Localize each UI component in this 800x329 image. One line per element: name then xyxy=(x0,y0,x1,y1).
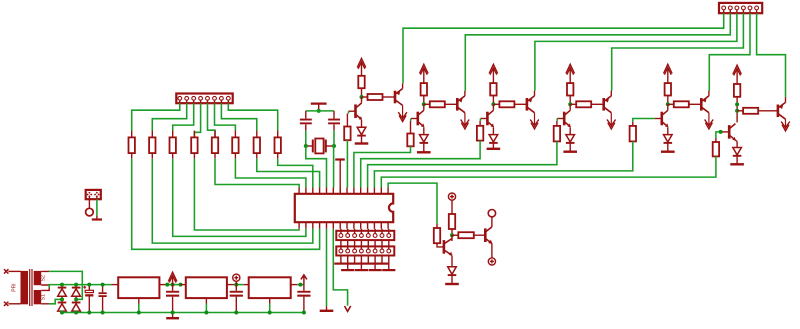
supply VCC arrow stage 3 xyxy=(489,64,498,74)
IC U1 bottom pins xyxy=(299,222,388,229)
node crystal right xyxy=(332,144,336,148)
resistor R3c base series vertical xyxy=(477,126,483,141)
supply arrow down stage 3 xyxy=(530,120,539,129)
capacitor C11 electrolytic xyxy=(88,285,90,291)
transistor Q3b NPN xyxy=(487,110,493,127)
node stage 5 junction xyxy=(666,102,670,106)
wire SV2 pin1 to T1 emitter xyxy=(403,13,724,83)
wire S2 top to bridge xyxy=(49,271,82,299)
wire SV1 pin1 to R11 xyxy=(132,103,180,130)
wire IC T12 to stage5 base resistor xyxy=(374,141,632,187)
node crystal left xyxy=(304,144,308,148)
svg-text:S1: S1 xyxy=(41,294,47,300)
transistor Q1b NPN xyxy=(356,103,362,120)
resistor R2a pull-up vertical xyxy=(421,83,427,95)
resistor R6a pull-up vertical xyxy=(734,84,740,97)
wire R11 to IC B4 xyxy=(132,159,320,250)
ground stage 4 xyxy=(563,150,577,152)
wire IC T14 to aux driver xyxy=(388,183,437,224)
resistor R11 segment series xyxy=(131,131,133,138)
resistor R22 vertical input xyxy=(436,224,438,228)
supply arrow down stage 6 xyxy=(781,122,790,131)
wire ground rail bottom xyxy=(62,312,304,314)
connector SV1 8-pin header xyxy=(176,94,232,104)
diode D5 to ground xyxy=(664,135,673,142)
supply arrow down stage 5 xyxy=(705,120,714,129)
grounds of JP2 pins xyxy=(340,256,342,263)
terminal circle aux collector xyxy=(488,210,495,217)
resistor R2c base series vertical xyxy=(407,134,413,147)
supply VCC arrow stage 4 xyxy=(566,64,575,74)
node stage 6 junction b xyxy=(735,109,739,113)
node reg2 out xyxy=(234,283,238,287)
diode D2 to ground xyxy=(420,135,429,142)
capacitor C12 xyxy=(102,285,104,293)
wire IC B6 to arrow xyxy=(333,229,347,306)
wire reg2 out xyxy=(234,284,244,286)
diode D6 to ground xyxy=(733,148,742,155)
regulator IC11 box xyxy=(111,284,118,286)
diode D14 bridge xyxy=(72,302,81,304)
node gnd rail f xyxy=(171,311,175,315)
wire SV2 pin3 to T3 emitter xyxy=(535,13,737,90)
wire SV1 pin3 to R13 xyxy=(173,103,194,130)
ground flag IC pin T7 xyxy=(335,158,345,160)
supply arrow power out xyxy=(301,275,307,285)
transistor Q3a PNP digit driver xyxy=(527,96,535,113)
node bridge mid left xyxy=(60,297,64,301)
wire IC T9 to stage2 base resistor xyxy=(354,146,411,187)
regulator IC12 box xyxy=(181,284,186,286)
supply plus circle aux top xyxy=(448,193,455,200)
diode D1 to ground xyxy=(357,127,366,134)
node reg1 out a xyxy=(165,283,169,287)
supply VCC arrow stage 1 xyxy=(357,58,366,68)
node gnd rail a xyxy=(60,311,64,315)
diode D4 to ground xyxy=(566,135,575,142)
node stage 2 junction xyxy=(422,102,426,106)
capacitor C1 crystal load left xyxy=(305,111,307,119)
wire R15 to IC T1 xyxy=(215,159,299,188)
wire R18 to IC T3 xyxy=(278,159,313,188)
node reg1 out b xyxy=(171,283,175,287)
wire stage 2 base lead xyxy=(411,118,417,120)
wire R22 to Q21 base xyxy=(437,243,443,247)
resistor R1a pull-up vertical xyxy=(358,76,364,88)
resistor R5a pull-up vertical xyxy=(665,83,671,95)
resistor R13 segment series xyxy=(172,131,174,138)
diode D12 bridge xyxy=(58,302,67,304)
connector SV2 6-pin header top right xyxy=(719,3,762,13)
node rail d13 xyxy=(74,283,78,287)
node stage 1 junction xyxy=(360,95,364,99)
regulator IC13 box xyxy=(244,284,249,286)
resistor R4b base horizontal xyxy=(570,103,576,105)
resistor R18 segment series xyxy=(277,131,279,138)
wire IC T10 to stage3 base resistor xyxy=(361,141,480,188)
resistor R4c base series vertical xyxy=(554,126,560,141)
wire SV2 pin6 to T6 emitter xyxy=(757,13,786,97)
diode D21 xyxy=(448,267,457,274)
supply VCC arrow stage 2 xyxy=(420,64,429,74)
resistor R21 vertical xyxy=(449,214,455,229)
svg-text:S2: S2 xyxy=(41,275,47,281)
wire S1 bottom to bridge xyxy=(49,299,62,303)
transistor Q2a PNP digit driver xyxy=(457,96,465,113)
wire IC T13 to stage6 base resistor xyxy=(381,156,716,187)
transformer TR1 core xyxy=(29,269,31,306)
ground stage 3 xyxy=(487,148,501,150)
transistor Q4b NPN xyxy=(564,110,570,127)
wire stage 1 base lead xyxy=(349,110,355,112)
resistor R15 segment series xyxy=(214,131,216,138)
transistor Q6a PNP digit driver xyxy=(778,102,786,119)
resistor R2b base horizontal xyxy=(424,103,430,105)
wire stage 3 base lead xyxy=(480,118,486,120)
supply VCC arrow stage 6 xyxy=(733,65,742,75)
supply plus circle power xyxy=(233,274,240,281)
resistor R5c base series vertical xyxy=(630,126,636,141)
node rail c11 xyxy=(87,283,91,287)
arrow down B6 xyxy=(345,306,351,311)
resistor R1c base series vertical xyxy=(344,127,350,141)
node stage 6 base xyxy=(719,130,723,134)
wire IC T8 to stage1 base resistor xyxy=(346,140,348,187)
resistor R12 segment series xyxy=(151,131,153,138)
wire stage 6 base lead xyxy=(722,131,728,133)
node aux junction xyxy=(450,233,454,237)
node stage 3 junction xyxy=(491,102,495,106)
transformer TR1 primary winding xyxy=(21,271,29,304)
transistor Q21 NPN xyxy=(444,239,452,256)
capacitor C2 crystal load right xyxy=(333,111,335,119)
resistor R17 segment series xyxy=(256,131,258,138)
resistor R1b base horizontal xyxy=(362,96,368,98)
transformer TR1 primary pin X1 xyxy=(4,269,8,273)
capacitor C14 xyxy=(235,285,237,291)
wire SV2 pin2 to T2 emitter xyxy=(465,13,730,90)
transistor Q1a PNP digit driver xyxy=(395,89,403,106)
ground stage 5 xyxy=(661,150,675,152)
ground stage 6 xyxy=(730,163,744,165)
supply arrow down stage 4 xyxy=(607,120,616,129)
supply arrow down stage 2 xyxy=(461,120,470,129)
node gnd rail i xyxy=(268,311,272,315)
node gnd rail d xyxy=(101,311,105,315)
diode D13 bridge xyxy=(75,285,77,288)
resistor R3b base horizontal xyxy=(493,103,499,105)
wire R16 to IC T2 xyxy=(235,159,306,188)
transistor Q5a PNP digit driver xyxy=(701,96,709,113)
ground aux xyxy=(445,283,459,285)
node rail c12 xyxy=(101,283,105,287)
wire R13 to IC B2 xyxy=(173,159,306,237)
node bridge mid right xyxy=(74,297,78,301)
supply VCC arrow stage 5 xyxy=(664,64,673,74)
resistor R6c base series vertical xyxy=(713,142,719,156)
wire SV2 pin5 to T5 emitter xyxy=(709,13,750,90)
wire JP3 pin2 to ground xyxy=(96,199,98,215)
transistor Q2b NPN xyxy=(418,110,424,127)
transformer TR1 secondary S2 xyxy=(34,271,42,285)
wire stage 5 base lead xyxy=(655,118,661,120)
wire stage 4 base lead xyxy=(557,118,563,120)
transformer TR1 taps xyxy=(41,271,49,303)
connector JP2 8-pin header ground row xyxy=(341,240,389,251)
wire SV1 pin4 to R14 xyxy=(194,103,200,137)
node reg3 out xyxy=(298,283,302,287)
connector JP3 2-pin xyxy=(86,190,101,199)
node gnd rail g xyxy=(204,311,208,315)
node gnd rail h xyxy=(234,311,238,315)
wire IC B5 to ground xyxy=(326,229,328,306)
node gnd rail b xyxy=(74,311,78,315)
supply plus circle aux emitter xyxy=(488,258,495,265)
resistor R6b base horizontal xyxy=(737,110,743,112)
node stage 6 junction a xyxy=(735,102,739,106)
wire IC T11 to stage4 base resistor xyxy=(368,141,557,187)
ground flag above crystal xyxy=(311,102,327,104)
capacitor C13 xyxy=(172,285,174,291)
resistor R14 segment series xyxy=(193,131,195,138)
transistor Q6b NPN xyxy=(729,124,735,141)
wire crystal right to IC pin T6 xyxy=(333,146,335,188)
node rail d11 xyxy=(60,283,64,287)
ground stage 1 xyxy=(355,142,369,144)
ground power rail xyxy=(172,313,174,318)
wire SV1 pin8 to R18 xyxy=(228,103,277,130)
wire center tap rail xyxy=(49,285,111,288)
wire reg3 out xyxy=(297,284,304,286)
supply arrow down stage 1 xyxy=(398,112,407,121)
wire R17 to IC T4 xyxy=(257,159,320,188)
wire crystal caps top xyxy=(306,110,334,112)
node gnd rail c xyxy=(87,311,91,315)
wire reg1 out xyxy=(167,284,180,286)
node gnd rail j xyxy=(302,311,306,315)
transistor Q22 NPN xyxy=(485,227,492,244)
wire SV1 pin2 to R12 xyxy=(152,103,186,130)
wire SV2 pin4 to T4 emitter xyxy=(612,13,744,90)
terminal circle JP3 pin1 xyxy=(86,208,94,216)
wire SV1 pin6 to R16 xyxy=(215,103,236,130)
wire cap1 to crystal node xyxy=(305,131,307,146)
node crystal top xyxy=(317,109,321,113)
wire SV1 pin5 to R15 xyxy=(208,103,216,137)
wire R14 to IC B1 xyxy=(194,159,299,230)
resistor R23 horizontal xyxy=(452,234,458,236)
node gnd rail e xyxy=(137,311,141,315)
resistor R3a pull-up vertical xyxy=(490,83,496,95)
ground JP3 xyxy=(92,218,102,220)
svg-text:PRI: PRI xyxy=(12,283,18,291)
wire SV1 pin7 to R17 xyxy=(221,103,256,130)
ground stage 2 xyxy=(417,151,431,153)
resistor R16 segment series xyxy=(234,131,236,138)
wire crystal left to IC pin T5 xyxy=(306,146,327,188)
transformer TR1 primary pin X2 xyxy=(4,302,8,306)
node reg1 out c xyxy=(179,283,183,287)
diode D11 bridge xyxy=(61,285,63,288)
IC U1 microcontroller body xyxy=(295,194,393,222)
capacitor C15 xyxy=(303,285,305,291)
wire cap2 to crystal node xyxy=(333,131,335,146)
transistor Q4a PNP digit driver xyxy=(604,96,612,113)
IC U1 top pins xyxy=(299,188,388,194)
ground B5 xyxy=(320,310,334,312)
supply VCC arrow power xyxy=(168,272,177,282)
node stage 4 junction xyxy=(568,102,572,106)
transistor Q5b NPN xyxy=(662,110,668,127)
resistor R4a pull-up vertical xyxy=(567,83,573,95)
transformer TR1 secondary S1 xyxy=(34,290,42,304)
crystal Q1 xyxy=(306,145,313,147)
resistor R5b base horizontal xyxy=(668,103,674,105)
connector JP1 8-pin header below IC xyxy=(341,229,389,236)
diode D3 to ground xyxy=(489,135,498,142)
wire R12 to IC B3 xyxy=(152,159,312,243)
